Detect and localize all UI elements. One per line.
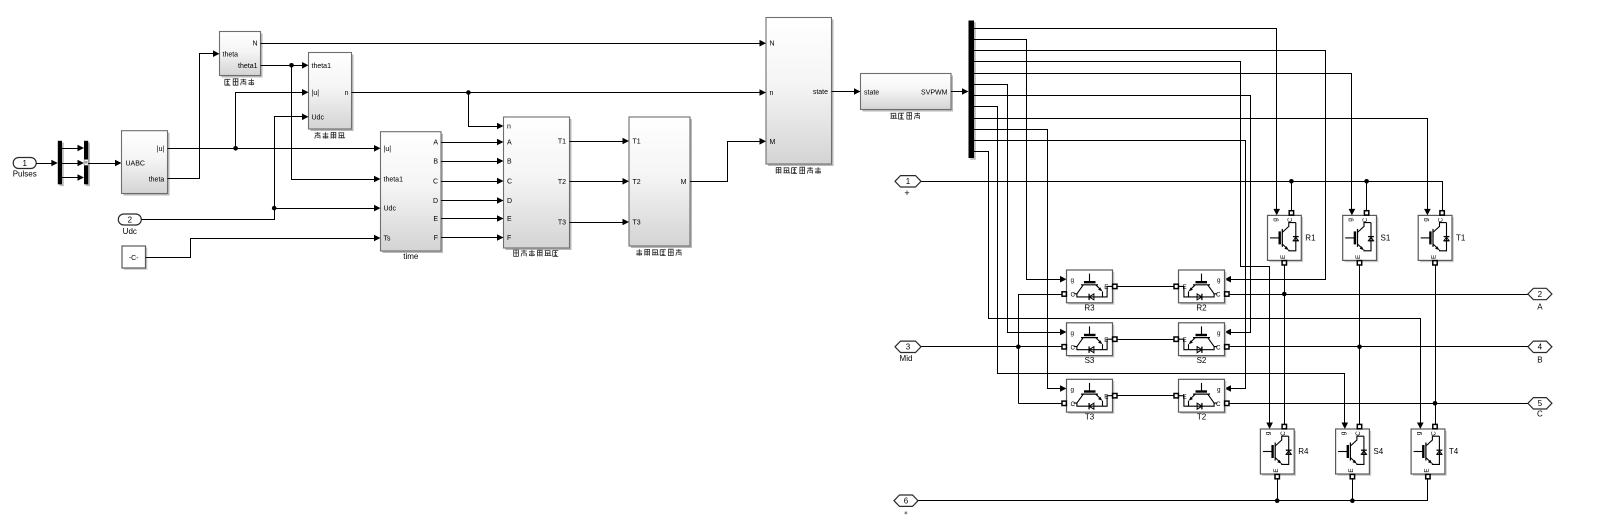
svg-text:|u|: |u|: [384, 146, 392, 153]
svg-text:C: C: [1355, 431, 1362, 436]
svg-text:g: g: [1217, 330, 1221, 337]
svg-text:T2: T2: [633, 179, 641, 186]
svg-text:C: C: [1216, 345, 1221, 352]
svg-text:C: C: [1362, 217, 1369, 222]
svg-text:g: g: [1347, 218, 1354, 222]
svg-text:5: 5: [1538, 399, 1543, 408]
svg-text:3: 3: [906, 343, 911, 352]
svg-text:state: state: [864, 89, 879, 96]
svg-text:g: g: [1217, 386, 1221, 393]
svg-text:S3: S3: [1085, 356, 1095, 365]
svg-text:T2: T2: [1197, 413, 1207, 422]
svg-text:E: E: [1183, 337, 1187, 344]
svg-text:E: E: [1280, 255, 1287, 259]
svg-text:A: A: [507, 140, 512, 147]
svg-text:C: C: [1537, 410, 1543, 419]
svg-text:T1: T1: [558, 139, 566, 146]
svg-text:S4: S4: [1373, 447, 1383, 456]
svg-text:SVPWM: SVPWM: [921, 89, 948, 96]
svg-text:E: E: [1424, 468, 1431, 472]
svg-text:C: C: [1071, 401, 1076, 408]
svg-text:g: g: [1071, 330, 1075, 337]
svg-text:T2: T2: [558, 179, 566, 186]
svg-text:1: 1: [22, 159, 27, 168]
svg-text:theta1: theta1: [238, 63, 258, 70]
svg-text:theta: theta: [223, 51, 239, 58]
svg-text:B: B: [433, 159, 438, 166]
svg-text:|u|: |u|: [312, 90, 320, 97]
svg-text:T3: T3: [1085, 413, 1095, 422]
svg-text:C: C: [1216, 401, 1221, 408]
svg-text:R3: R3: [1084, 303, 1095, 312]
svg-text:Udc: Udc: [384, 206, 397, 213]
svg-text:g: g: [1423, 218, 1430, 222]
svg-text:4: 4: [1538, 343, 1543, 352]
svg-text:g: g: [1071, 386, 1075, 393]
svg-text:C: C: [1431, 431, 1438, 436]
svg-text:R4: R4: [1298, 447, 1309, 456]
svg-text:Ts: Ts: [384, 236, 392, 243]
svg-text:B: B: [1537, 355, 1542, 364]
svg-text:C: C: [1071, 292, 1076, 299]
svg-text:g: g: [1265, 431, 1272, 435]
svg-text:-C-: -C-: [129, 255, 139, 262]
svg-text:T3: T3: [558, 220, 566, 227]
svg-text:R1: R1: [1305, 234, 1316, 243]
svg-text:B: B: [507, 159, 512, 166]
svg-text:Udc: Udc: [312, 114, 325, 121]
svg-text:UABC: UABC: [126, 160, 145, 167]
svg-text:C: C: [1216, 292, 1221, 299]
svg-text:g: g: [1272, 218, 1279, 222]
svg-text:R2: R2: [1196, 303, 1207, 312]
svg-text:theta1: theta1: [312, 63, 332, 70]
svg-text:state: state: [813, 89, 828, 96]
svg-text:Pulses: Pulses: [13, 169, 37, 178]
svg-text:Udc: Udc: [123, 227, 137, 236]
svg-text:A: A: [1537, 303, 1543, 312]
svg-text:E: E: [1431, 255, 1438, 259]
svg-text:E: E: [1104, 337, 1108, 344]
svg-text:C: C: [507, 179, 512, 186]
svg-text:E: E: [1348, 468, 1355, 472]
svg-text:n: n: [507, 124, 511, 131]
svg-text:E: E: [1273, 468, 1280, 472]
svg-text:C: C: [1280, 431, 1287, 436]
svg-text:N: N: [770, 40, 775, 47]
svg-text:g: g: [1340, 431, 1347, 435]
svg-text:S2: S2: [1197, 356, 1207, 365]
svg-text:F: F: [507, 235, 511, 242]
svg-text:M: M: [681, 179, 687, 186]
svg-text:6: 6: [904, 497, 909, 506]
svg-text:F: F: [434, 235, 438, 242]
svg-text:theta1: theta1: [384, 177, 404, 184]
svg-text:Mid: Mid: [900, 354, 913, 363]
svg-text:1: 1: [906, 177, 911, 186]
svg-text:T1: T1: [633, 139, 641, 146]
svg-text:S1: S1: [1381, 234, 1391, 243]
svg-text:+: +: [904, 188, 909, 198]
svg-text:2: 2: [128, 216, 133, 225]
svg-text:E: E: [1183, 284, 1187, 291]
svg-text:g: g: [1217, 277, 1221, 284]
svg-text:N: N: [252, 41, 257, 48]
svg-text:g: g: [1415, 431, 1422, 435]
svg-text:D: D: [433, 198, 438, 205]
svg-text:T4: T4: [1449, 447, 1459, 456]
svg-text:2: 2: [1538, 290, 1543, 299]
svg-text:time: time: [403, 252, 419, 261]
svg-text:C: C: [1287, 217, 1294, 222]
svg-text:A: A: [433, 140, 438, 147]
svg-text:E: E: [1104, 284, 1108, 291]
svg-text:E: E: [1355, 255, 1362, 259]
svg-text:M: M: [770, 139, 776, 146]
svg-text:C: C: [433, 179, 438, 186]
svg-text:E: E: [1183, 394, 1187, 401]
svg-text:D: D: [507, 198, 512, 205]
svg-text:E: E: [507, 216, 512, 223]
svg-text:|u|: |u|: [157, 146, 165, 153]
svg-text:E: E: [1104, 394, 1108, 401]
svg-text:C: C: [1438, 217, 1445, 222]
svg-text:n: n: [770, 90, 774, 97]
svg-text:T3: T3: [633, 220, 641, 227]
svg-text:C: C: [1071, 345, 1076, 352]
svg-text:theta: theta: [149, 176, 165, 183]
svg-text:E: E: [433, 216, 438, 223]
svg-text:T1: T1: [1456, 234, 1466, 243]
svg-text:g: g: [1071, 277, 1075, 284]
svg-text:n: n: [345, 90, 349, 97]
